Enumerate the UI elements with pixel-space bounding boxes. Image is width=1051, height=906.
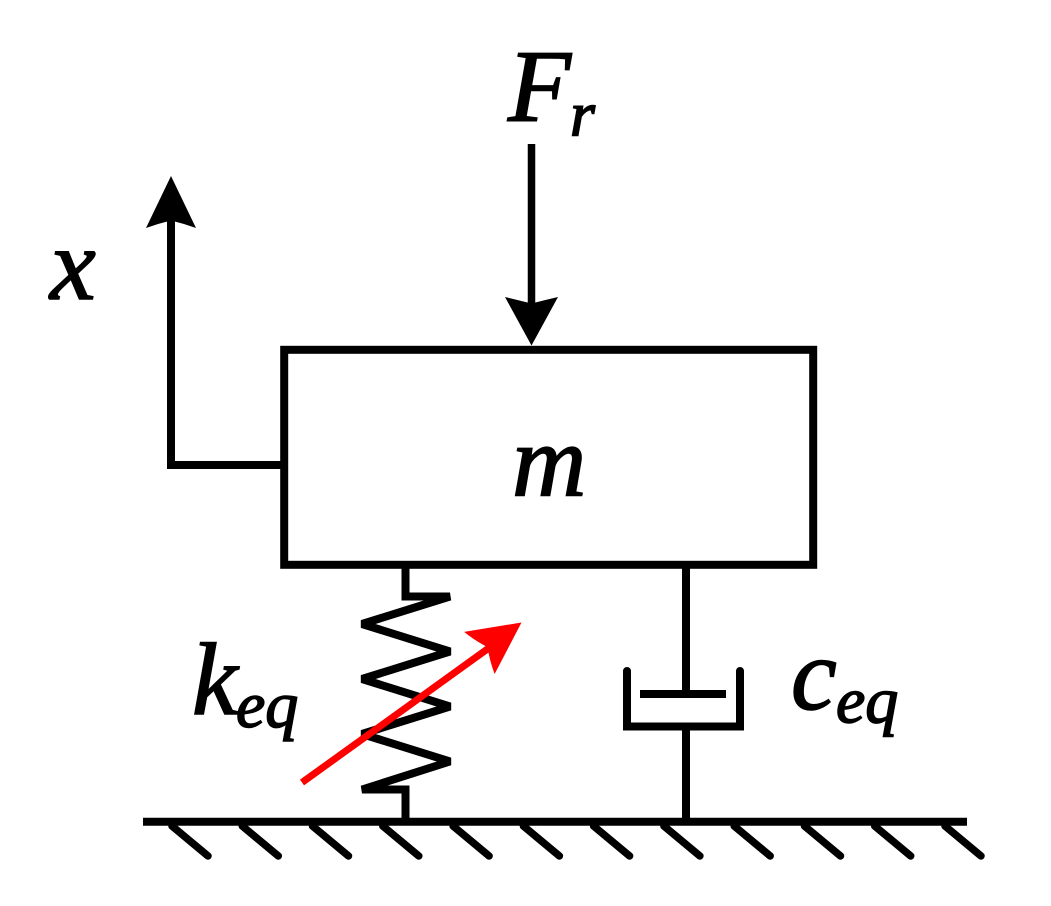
svg-text:r: r	[570, 79, 596, 150]
svg-text:eq: eq	[836, 665, 898, 738]
svg-text:eq: eq	[236, 669, 298, 742]
label c_eq	[791, 618, 898, 738]
svg-text:x: x	[48, 208, 96, 322]
x axis arrow (up) with elbow to mass	[146, 176, 284, 465]
svg-text:k: k	[192, 623, 240, 737]
mass block m	[284, 350, 813, 565]
label k_eq	[192, 623, 298, 742]
ground hatching	[172, 826, 981, 856]
red adjustment arrow over spring	[302, 601, 537, 782]
force arrow Fr (down onto mass)	[505, 144, 558, 346]
ground line	[143, 818, 967, 826]
damper bottom rod	[682, 727, 690, 823]
svg-text:c: c	[791, 618, 837, 732]
damper piston plate	[640, 690, 726, 698]
damper c_eq	[627, 565, 740, 822]
svg-text:m: m	[512, 405, 586, 519]
damper cylinder cup	[627, 671, 740, 727]
spring k_eq	[362, 562, 450, 822]
label F_r	[507, 30, 596, 150]
svg-text:F: F	[507, 30, 572, 144]
damper top rod	[682, 565, 690, 694]
